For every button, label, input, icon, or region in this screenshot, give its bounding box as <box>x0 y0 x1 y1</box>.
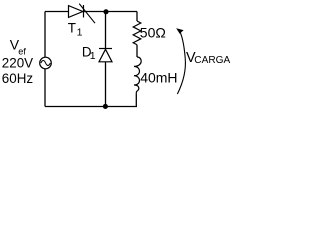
Vcarga arrowhead <box>176 28 183 34</box>
diode D1 cathode bar <box>99 48 112 50</box>
svg-text:1: 1 <box>77 26 83 38</box>
wire bottom <box>45 106 137 108</box>
inductor 40mH coil <box>134 57 141 95</box>
svg-text:60Hz: 60Hz <box>2 71 34 86</box>
resistor 50ohm zigzag <box>133 21 141 45</box>
svg-text:50Ω: 50Ω <box>140 25 166 41</box>
Vcarga arrow arc <box>177 33 185 95</box>
thyristor T1 gate line <box>79 4 95 24</box>
diode D1 triangle <box>99 49 112 62</box>
AC source sine wave <box>41 61 50 66</box>
svg-text:1: 1 <box>90 50 96 62</box>
AC source V1 circle <box>40 57 52 69</box>
wire right vertical top <box>136 12 138 22</box>
wire left vertical lower <box>44 69 46 107</box>
wire left vertical upper <box>44 12 46 58</box>
svg-text:CARGA: CARGA <box>194 55 230 66</box>
svg-text:40mH: 40mH <box>140 70 177 86</box>
wire diode branch upper <box>105 12 107 49</box>
thyristor T1 triangle <box>69 6 83 18</box>
node junction dot bottom <box>103 104 108 109</box>
node junction dot top <box>103 9 108 14</box>
wire diode branch lower <box>105 62 107 107</box>
wire top right segment <box>84 11 138 13</box>
thyristor T1 cathode bar <box>83 5 85 18</box>
wire right vertical middle <box>136 45 138 57</box>
wire right vertical bottom <box>135 95 137 107</box>
wire top left segment <box>45 11 69 13</box>
svg-text:220V: 220V <box>2 56 33 71</box>
svg-text:T: T <box>68 21 76 36</box>
